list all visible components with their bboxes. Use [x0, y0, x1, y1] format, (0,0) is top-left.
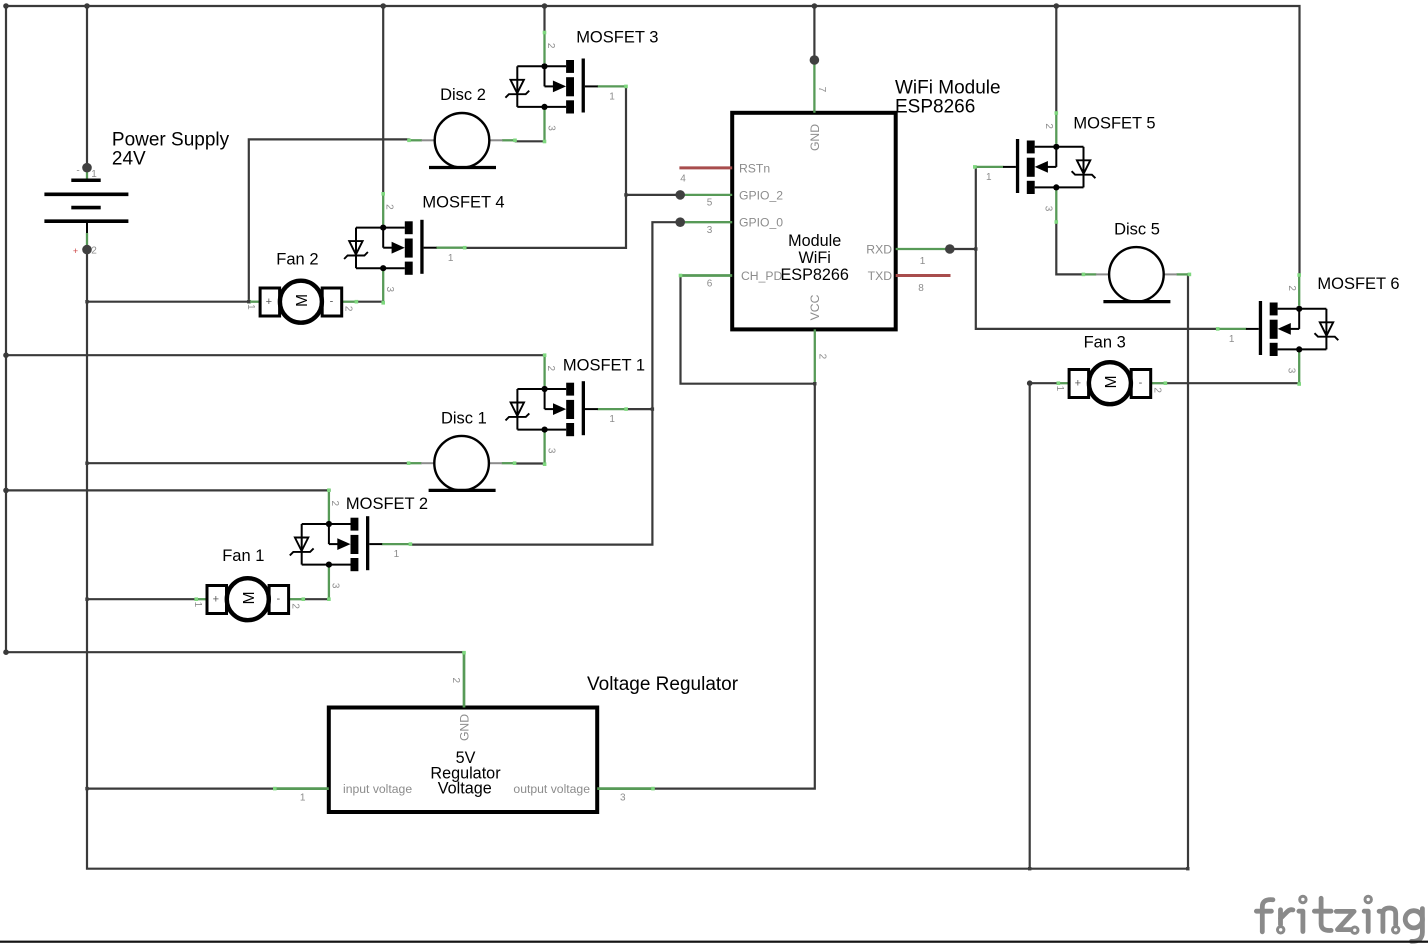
svg-text:Fan 3: Fan 3: [1084, 334, 1126, 352]
wire reg GND leg: [463, 653, 466, 708]
svg-text:Fan 1: Fan 1: [222, 547, 264, 565]
svg-text:TXD: TXD: [868, 269, 893, 283]
svg-text:2: 2: [91, 246, 97, 257]
svg-text:1: 1: [91, 169, 97, 180]
svg-text:1: 1: [986, 172, 992, 183]
motor Disc 5 (disc motor symbol): [1082, 247, 1192, 302]
svg-text:1: 1: [300, 793, 306, 804]
transistor Q1 MOSFET 1 (N-MOSFET with body zener diode): [505, 353, 627, 466]
svg-text:3: 3: [707, 225, 713, 236]
wire CH_PD to VCC node: [681, 276, 815, 384]
svg-text:Disc 2: Disc 2: [440, 86, 486, 104]
node junction left bus H: [3, 649, 9, 655]
wire Fan 3 node to bottom bus: [1029, 383, 1031, 869]
svg-text:1: 1: [394, 549, 400, 560]
wire ESP GND leg pin 7: [813, 60, 815, 113]
motor Fan 3 (fan, DC motor symbol): [1054, 362, 1167, 404]
wire corner ticks: [813, 382, 816, 385]
wire ESP GPIO_0 leg pin 3: [680, 221, 732, 223]
svg-text:VCC: VCC: [808, 294, 822, 320]
svg-text:output voltage: output voltage: [513, 782, 590, 796]
svg-text:2: 2: [817, 354, 828, 360]
wire bus to Fan 1 plus: [87, 598, 196, 600]
svg-text:-: -: [330, 296, 334, 308]
svg-text:MOSFET 4: MOSFET 4: [422, 194, 504, 212]
svg-text:+: +: [73, 246, 78, 256]
node terminal ESP GND pin 7: [810, 55, 820, 65]
wire bus drop to MOSFET 5 drain: [1055, 6, 1057, 113]
wire reg input leg: [275, 787, 329, 790]
wire Disc 1 right to MOSFET 1 source: [515, 462, 545, 464]
wire bus drop to MOSFET 4 drain: [382, 6, 384, 194]
svg-text:8: 8: [918, 283, 924, 294]
svg-text:M: M: [1103, 375, 1120, 388]
node terminal battery pin 2: [82, 245, 92, 255]
wire bus drop to MOSFET 3 drain: [543, 6, 545, 33]
wire RXD stub: [950, 248, 976, 250]
svg-text:1: 1: [609, 92, 615, 103]
svg-text:ESP8266: ESP8266: [895, 96, 975, 117]
transistor Q5 MOSFET 5 (N-MOSFET with body zener diode): [973, 111, 1095, 224]
svg-text:1: 1: [1054, 386, 1065, 392]
svg-text:2: 2: [289, 603, 300, 609]
wire battery+ bottom bus / Disc 5 riser: [87, 250, 1188, 869]
wire MOSFET 1 gate branch: [626, 408, 652, 410]
svg-text:2: 2: [1151, 387, 1162, 393]
svg-text:GND: GND: [808, 124, 822, 151]
svg-text:MOSFET 2: MOSFET 2: [346, 495, 428, 513]
svg-text:-: -: [277, 593, 281, 605]
svg-text:5: 5: [707, 198, 713, 209]
wire Fan 1 minus to MOSFET 2 source: [303, 598, 329, 600]
wire ESP GPIO_2 leg pin 5: [680, 194, 732, 196]
svg-text:6: 6: [707, 278, 713, 289]
wire node to Fan 3 plus: [1030, 382, 1058, 384]
node terminal battery pin 1: [82, 163, 92, 173]
node junction bus B: [380, 3, 386, 9]
svg-text:WiFi: WiFi: [799, 249, 831, 267]
wire bus to regulator input: [87, 787, 275, 789]
transistor Q2 MOSFET 2 (N-MOSFET with body zener diode): [290, 488, 412, 601]
node junction bus E: [1054, 3, 1060, 9]
motor Disc 1 (disc motor symbol): [407, 436, 517, 491]
transistor Q4 MOSFET 4 (N-MOSFET with body zener diode): [344, 192, 466, 305]
svg-text:Disc 5: Disc 5: [1114, 220, 1160, 238]
svg-text:GPIO_0: GPIO_0: [739, 216, 783, 230]
motor Disc 2 (disc motor symbol): [407, 113, 517, 168]
wire bus to Disc 1 left: [87, 462, 409, 464]
wire bus to Fan 2 plus: [87, 301, 249, 303]
wire CH_PD leg: [681, 274, 733, 277]
wire MOSFET 5 source to Disc 5 left: [1056, 222, 1082, 274]
wire GPIO_0 to MOSFET 2 gate: [410, 222, 680, 544]
svg-text:Module: Module: [788, 232, 841, 250]
svg-text:24V: 24V: [112, 148, 146, 169]
svg-text:7: 7: [816, 87, 827, 93]
svg-text:3: 3: [620, 793, 626, 804]
svg-text:3: 3: [545, 125, 556, 131]
svg-text:2: 2: [384, 204, 395, 210]
wire Fan 2 plus to Disc 2 left: [249, 139, 409, 301]
node junction bus D: [812, 3, 818, 9]
svg-text:2: 2: [1043, 123, 1054, 129]
svg-text:1: 1: [609, 414, 615, 425]
svg-text:Voltage: Voltage: [438, 780, 492, 798]
wire TXD red leg: [896, 274, 951, 277]
node terminal GPIO_0 pin: [675, 217, 685, 227]
svg-text:1: 1: [448, 253, 454, 264]
svg-text:GPIO_2: GPIO_2: [739, 188, 783, 202]
wire left vertical bus: [5, 6, 7, 652]
svg-text:RXD: RXD: [866, 243, 892, 257]
wire top supply bus / MOSFET 6 drain drop: [6, 6, 1300, 275]
node junction left bus G: [3, 488, 9, 494]
wire top bus to ESP GND: [813, 6, 815, 60]
svg-text:MOSFET 5: MOSFET 5: [1073, 115, 1155, 133]
wire regulator GND branch: [6, 651, 464, 653]
svg-text:3: 3: [384, 287, 395, 293]
svg-text:2: 2: [545, 43, 556, 49]
svg-text:+: +: [213, 594, 219, 606]
svg-text:+: +: [266, 296, 272, 308]
node junction bus C: [542, 3, 548, 9]
node junction Fan3 node: [1027, 380, 1033, 386]
wire Fan 2 minus to MOSFET 4 source: [356, 301, 383, 303]
svg-text:Voltage Regulator: Voltage Regulator: [587, 674, 739, 695]
svg-text:3: 3: [330, 583, 341, 589]
svg-text:2: 2: [545, 366, 556, 372]
wire regulator output to VCC node: [653, 384, 815, 789]
wire reg output leg: [597, 787, 653, 790]
wire MOSFET 3 gate to MOSFET 4 gate: [465, 86, 626, 248]
svg-text:-: -: [1139, 377, 1143, 389]
svg-text:WiFi Module: WiFi Module: [895, 77, 1001, 98]
svg-text:2: 2: [450, 678, 461, 684]
svg-text:2: 2: [342, 306, 353, 312]
wire RSTn red leg: [679, 166, 732, 169]
node junction left bus F: [3, 352, 9, 358]
svg-text:-: -: [76, 166, 79, 177]
wire Disc 2 right to MOSFET 3 source: [516, 140, 545, 142]
transistor Q3 MOSFET 3 (N-MOSFET with body zener diode): [505, 31, 627, 144]
svg-text:M: M: [241, 591, 258, 604]
wire RXD net to MOSFET 5 and 6 gates: [976, 167, 1218, 329]
svg-text:input voltage: input voltage: [343, 782, 412, 796]
wire Fan 3 minus to MOSFET 6 source: [1166, 382, 1300, 384]
svg-text:1: 1: [920, 256, 926, 267]
node junction bus A: [84, 3, 90, 9]
svg-text:1: 1: [1229, 334, 1235, 345]
svg-text:M: M: [294, 294, 311, 307]
wire ESP RXD leg pin 1: [896, 248, 950, 250]
motor Fan 1 (fan, DC motor symbol): [192, 578, 305, 620]
svg-text:3: 3: [545, 448, 556, 454]
svg-text:MOSFET 6: MOSFET 6: [1317, 275, 1399, 293]
svg-text:Fan 2: Fan 2: [276, 250, 318, 268]
node junction top-left corner: [3, 3, 9, 9]
svg-text:+: +: [1075, 378, 1081, 390]
node terminal RXD pin: [945, 244, 955, 254]
motor Fan 2 (fan, DC motor symbol): [245, 281, 358, 323]
bottom border line: [0, 941, 1428, 943]
svg-text:RSTn: RSTn: [739, 161, 770, 175]
svg-text:Disc 1: Disc 1: [441, 409, 487, 427]
svg-text:2: 2: [329, 501, 340, 507]
wire bus to MOSFET 2 drain: [6, 489, 330, 491]
svg-text:CH_PD: CH_PD: [741, 269, 783, 283]
wire battery pin1 feed: [86, 6, 88, 168]
fritzing logo: [1256, 896, 1422, 941]
svg-text:1: 1: [192, 602, 203, 608]
svg-text:GND: GND: [458, 714, 472, 741]
IC U1 WiFi module ESP8266 box: [732, 113, 896, 330]
IC U2 voltage regulator 5V box: [329, 708, 597, 813]
svg-text:MOSFET 1: MOSFET 1: [563, 357, 645, 375]
svg-text:4: 4: [680, 173, 686, 184]
wire bus to MOSFET 1 drain: [6, 354, 545, 356]
svg-text:2: 2: [1286, 285, 1297, 291]
wire gate net to GPIO_2: [626, 194, 680, 196]
svg-text:3: 3: [1285, 368, 1296, 374]
svg-text:3: 3: [1043, 206, 1054, 212]
svg-text:MOSFET 3: MOSFET 3: [576, 29, 658, 47]
svg-text:Power Supply: Power Supply: [112, 129, 230, 150]
battery power supply 24V: [44, 166, 128, 257]
svg-text:1: 1: [245, 304, 256, 310]
transistor Q6 MOSFET 6 (N-MOSFET with body zener diode): [1216, 273, 1338, 386]
node terminal GPIO_2 pin: [675, 190, 685, 200]
svg-text:ESP8266: ESP8266: [780, 266, 848, 284]
wire ESP VCC leg pin 2: [814, 329, 816, 383]
